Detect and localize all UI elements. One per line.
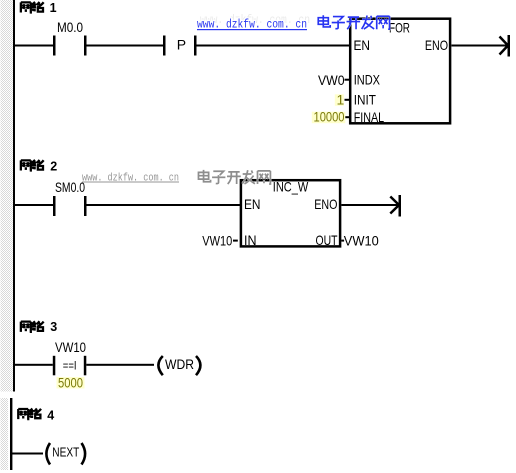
left margin hatch strip (networks 1-3) — [1, 0, 13, 392]
network 1 title — [21, 2, 44, 13]
operand 10000 (constant) — [312, 112, 346, 124]
wire: FOR ENO to arrow — [452, 45, 508, 47]
svg-text:VW10: VW10 — [55, 339, 86, 355]
svg-text:OUT: OUT — [316, 232, 338, 248]
svg-text:4: 4 — [47, 408, 54, 422]
svg-text:VW10: VW10 — [344, 232, 379, 248]
wire: contact to WDR coil — [86, 364, 154, 366]
left power rail (network 4) — [10, 398, 12, 470]
wire: rail to NEXT coil — [12, 453, 43, 455]
wire: rail to SM0.0 contact — [15, 204, 54, 206]
svg-text:1: 1 — [337, 91, 345, 107]
contact P (positive edge) — [163, 36, 166, 56]
svg-text:SM0.0: SM0.0 — [55, 179, 85, 195]
svg-text:==I: ==I — [63, 361, 77, 373]
svg-text:EN: EN — [354, 37, 371, 53]
svg-text:EN: EN — [244, 196, 261, 212]
INC_W block box — [241, 180, 340, 246]
svg-text:M0.0: M0.0 — [57, 19, 83, 35]
svg-text:3: 3 — [50, 320, 57, 334]
watermark (blue) url — [197, 18, 307, 32]
svg-text:FOR: FOR — [389, 20, 410, 36]
svg-text:2: 2 — [50, 160, 57, 174]
contact M0.0 — [53, 36, 56, 56]
arrow (network 2 continuation) — [399, 195, 402, 217]
operand 1 (constant) — [335, 94, 344, 106]
left power rail (networks 1-3) — [13, 0, 15, 392]
svg-text:INIT: INIT — [354, 92, 377, 108]
wire: INC_W ENO to arrow — [341, 204, 398, 206]
arrow (network 1 continuation) — [508, 35, 511, 57]
wire: rail to M0.0 contact — [15, 45, 54, 47]
INC_W OUT pin — [341, 240, 344, 242]
svg-text:VW10: VW10 — [202, 232, 232, 248]
coil WDR — [158, 356, 162, 375]
svg-text:WDR: WDR — [165, 356, 194, 372]
network 4 title — [18, 409, 41, 420]
coil NEXT — [46, 443, 50, 465]
svg-text:10000: 10000 — [314, 109, 345, 125]
FOR FINAL pin — [345, 116, 350, 118]
svg-text:INDX: INDX — [354, 71, 381, 87]
FOR block box — [350, 19, 450, 124]
network 3 title — [21, 321, 44, 332]
FOR INDX pin — [345, 79, 350, 81]
operand 5000 (constant) — [57, 377, 85, 389]
INC_W IN pin — [233, 240, 238, 242]
svg-text:ENO: ENO — [425, 37, 448, 53]
svg-text:INC_W: INC_W — [273, 178, 309, 194]
watermark (gray) chinese — [198, 170, 270, 184]
watermark (blue) chinese — [318, 15, 389, 29]
svg-text:NEXT: NEXT — [52, 445, 79, 460]
left margin hatch strip (network 4) — [1, 398, 9, 470]
svg-text:IN: IN — [244, 232, 257, 248]
svg-text:5000: 5000 — [58, 374, 83, 390]
wire: M0.0 to P contact — [87, 45, 164, 47]
watermark (gray) url — [82, 172, 179, 184]
wire: SM0.0 to INC_W EN — [87, 204, 242, 206]
compare contact ==I — [53, 356, 56, 376]
svg-text:VW0: VW0 — [318, 72, 345, 88]
FOR INIT pin — [345, 99, 350, 101]
svg-text:FINAL: FINAL — [354, 109, 385, 125]
wire: P contact to FOR EN — [197, 45, 350, 47]
svg-text:1: 1 — [50, 1, 57, 15]
network 2 title — [21, 160, 44, 171]
contact SM0.0 — [53, 196, 56, 216]
svg-text:ENO: ENO — [314, 196, 337, 212]
wire: rail to compare contact — [15, 364, 53, 366]
svg-text:P: P — [177, 36, 186, 52]
